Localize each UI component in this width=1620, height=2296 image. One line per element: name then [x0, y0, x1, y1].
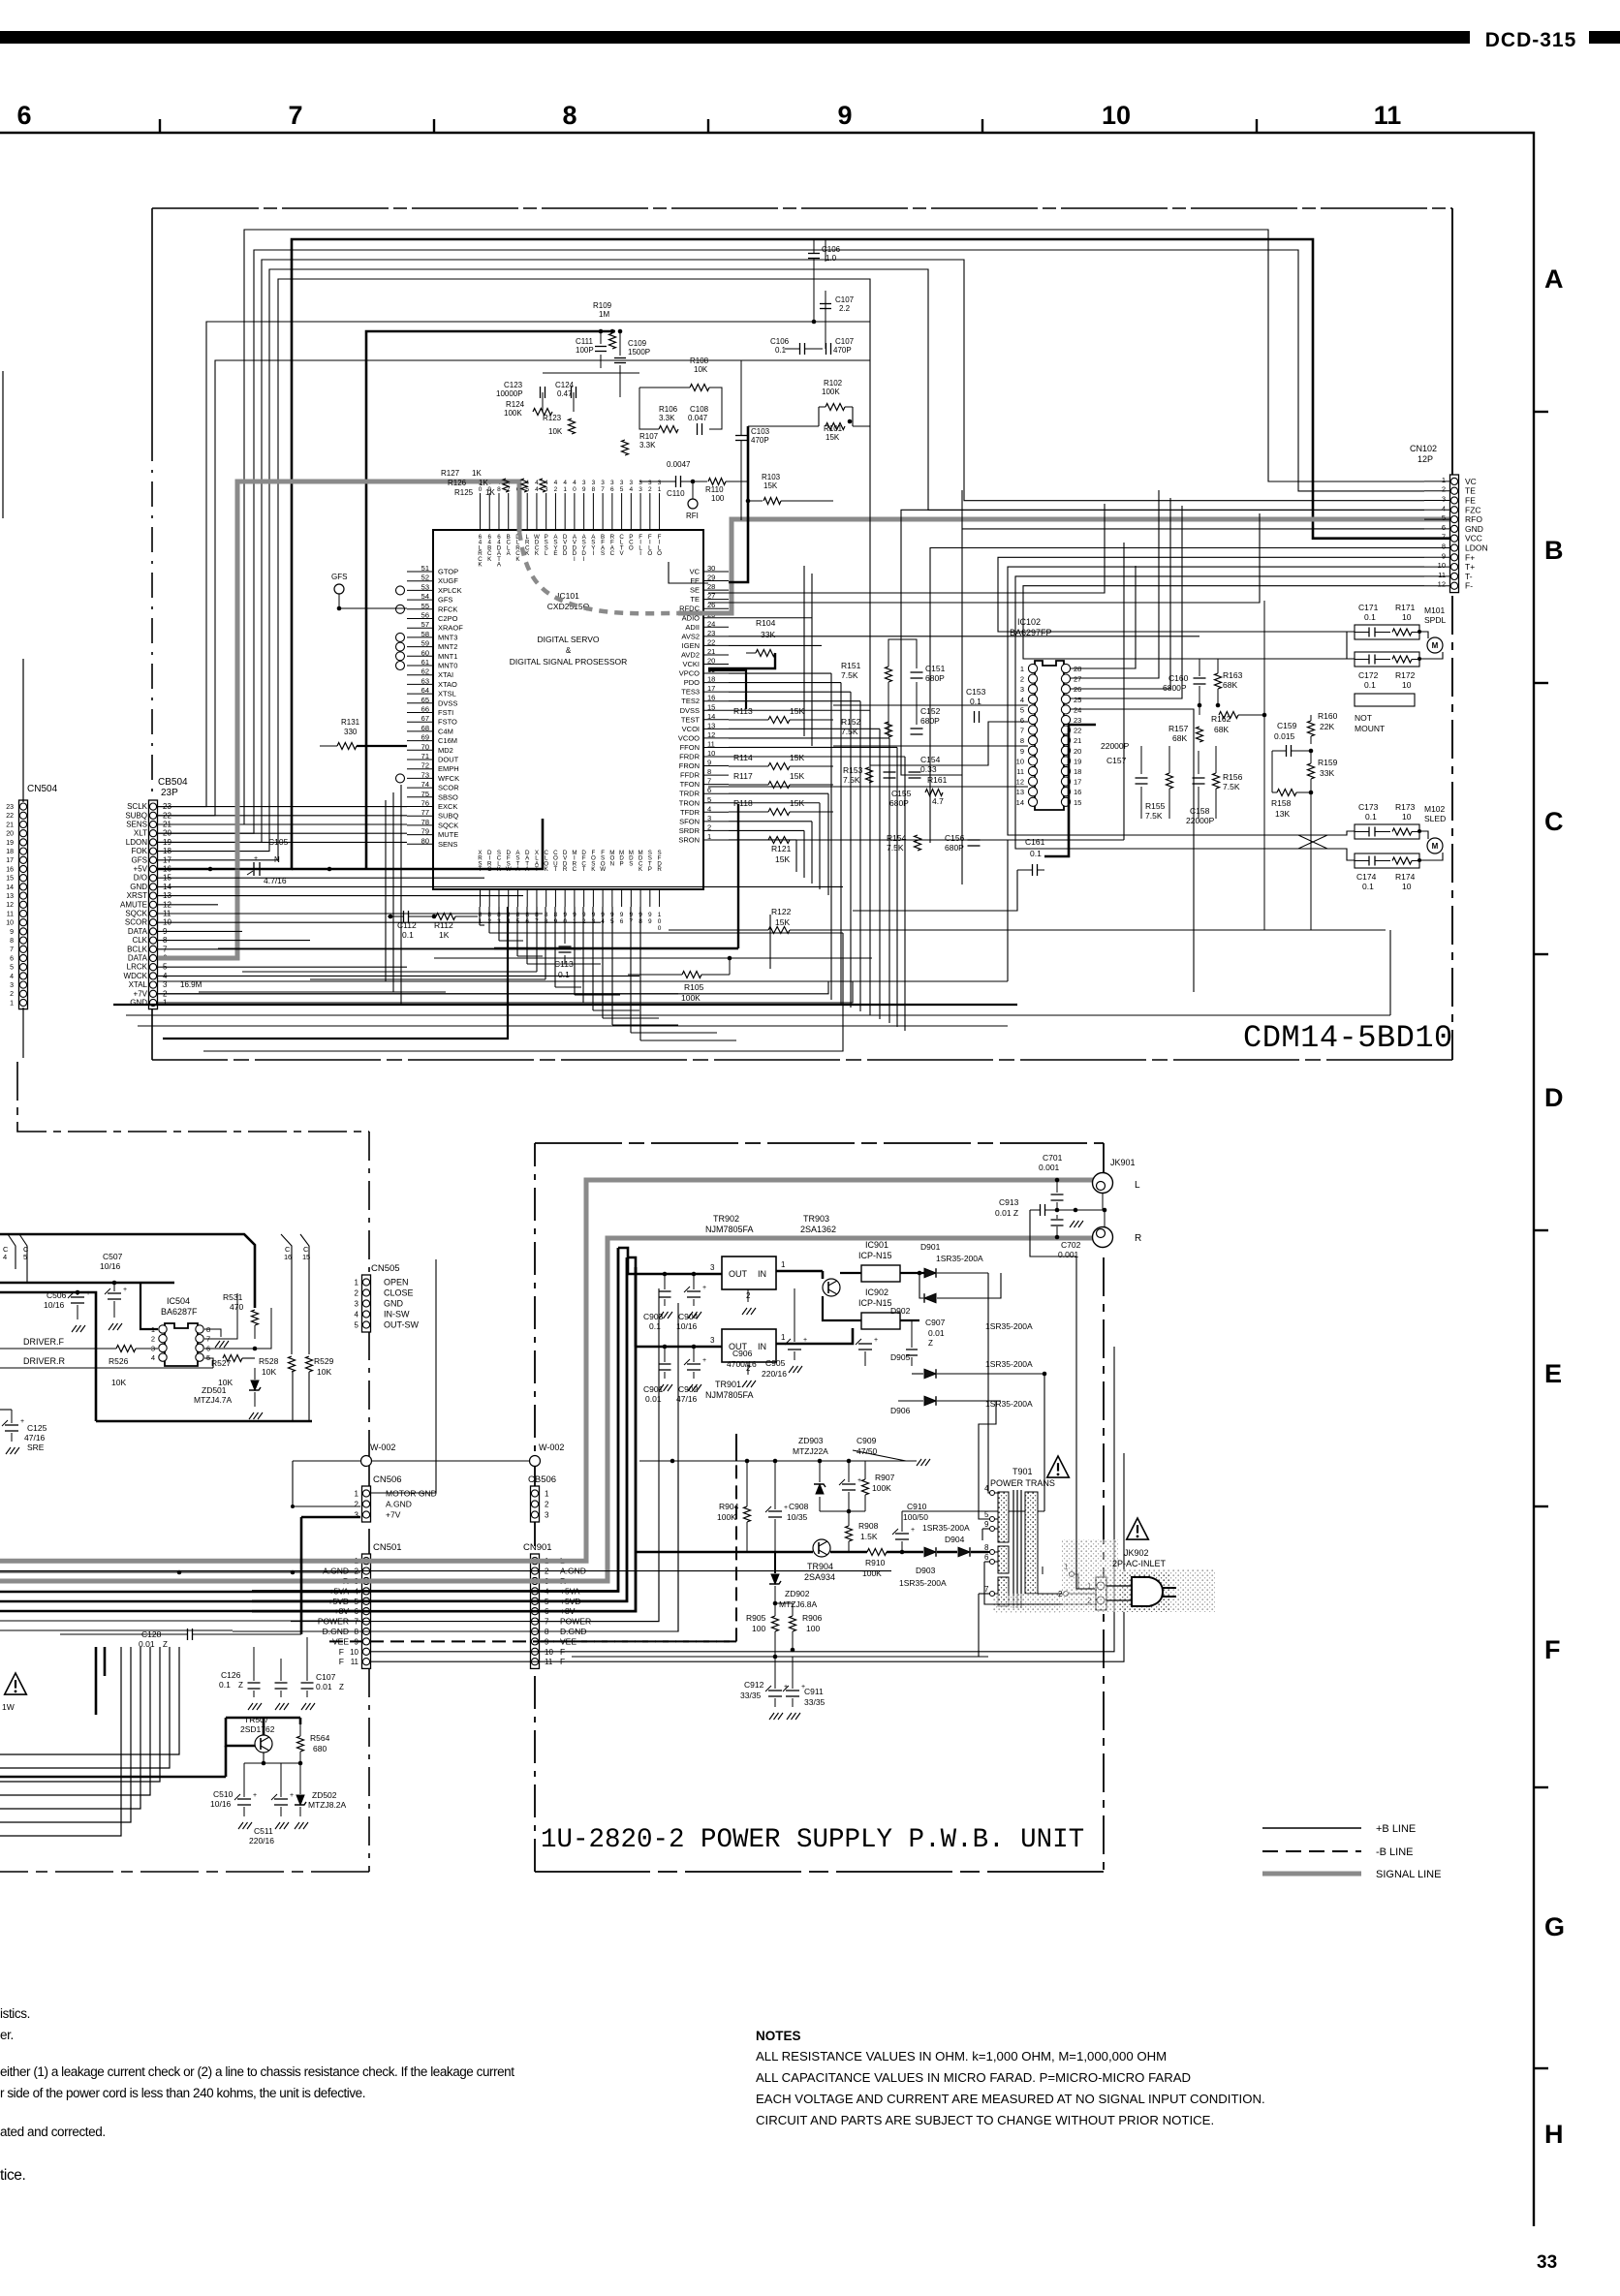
svg-text:4: 4 — [151, 1353, 155, 1362]
wire t901 p8 — [988, 1551, 990, 1553]
svg-text:18: 18 — [707, 675, 715, 684]
svg-text:DATA: DATA — [128, 954, 148, 963]
wire dgnd row — [233, 1303, 678, 1631]
svg-text:BA6287F: BA6287F — [161, 1307, 198, 1317]
svg-text:DVSS: DVSS — [438, 698, 457, 707]
wire cn102 p8 ldon — [930, 548, 1424, 844]
wire left row dgnd — [0, 1629, 233, 1631]
svg-text:NJM7805FA: NJM7805FA — [705, 1225, 754, 1234]
svg-text:21: 21 — [1074, 736, 1081, 745]
power block border right dashed — [1103, 1257, 1105, 1872]
svg-text:F+: F+ — [1465, 552, 1475, 562]
wire frame f2 — [1070, 498, 1170, 689]
svg-text:2SA1362: 2SA1362 — [800, 1225, 836, 1234]
wire ic101 bottom fan — [611, 907, 613, 1025]
wire +5vd bundle up — [627, 1257, 636, 1347]
IC101 pin 30 VC — [703, 571, 729, 573]
wire mesh vert — [888, 738, 890, 1023]
svg-text:0.001: 0.001 — [1039, 1163, 1060, 1172]
svg-text:5: 5 — [1442, 513, 1446, 522]
wire ic102 rows — [833, 704, 1028, 706]
svg-text:10: 10 — [1402, 680, 1412, 690]
wire F row2 — [371, 1453, 1124, 1661]
svg-text:20: 20 — [6, 831, 14, 838]
svg-text:21: 21 — [6, 822, 14, 828]
wire 1710 row — [572, 1656, 988, 1658]
svg-text:3: 3 — [630, 480, 634, 486]
svg-text:CB504: CB504 — [158, 777, 188, 788]
svg-text:XPLCK: XPLCK — [438, 586, 462, 595]
IC101 pin 14 TEST — [703, 719, 729, 721]
svg-text:80: 80 — [421, 836, 429, 845]
svg-text:PDO: PDO — [684, 678, 700, 687]
svg-text:XRAOF: XRAOF — [438, 624, 463, 633]
wire power row — [291, 1288, 659, 1622]
svg-text:+: + — [702, 1357, 706, 1364]
svg-text:33K: 33K — [761, 630, 775, 639]
svg-text:68K: 68K — [1214, 725, 1229, 734]
IC102 pin 10 — [1028, 757, 1037, 765]
IC101 pin 78 SQCK — [407, 824, 433, 826]
wire ic101 pin13 net — [729, 728, 880, 729]
svg-text:+: + — [20, 1418, 24, 1425]
IC101 pin 67 FSTO — [407, 721, 433, 723]
svg-text:F: F — [1544, 1635, 1561, 1664]
svg-text:SCOR: SCOR — [438, 784, 459, 792]
CDM14-5BD10 block border bottom — [152, 1059, 1452, 1061]
svg-text:FFDR: FFDR — [680, 771, 701, 780]
IC102 pin 24 — [1061, 705, 1070, 714]
svg-text:MOUNT: MOUNT — [1355, 724, 1385, 733]
svg-text:15: 15 — [6, 876, 14, 883]
svg-text:T-: T- — [1465, 572, 1473, 581]
node c507 — [112, 1281, 117, 1286]
svg-text:R109: R109 — [593, 301, 612, 310]
wire mesh r3 — [833, 620, 1028, 729]
svg-text:VPCO: VPCO — [679, 669, 700, 678]
snubber C174 R174 — [1355, 853, 1419, 868]
IC101 pin 9 FRON — [703, 765, 729, 767]
svg-text:SPDL: SPDL — [1424, 615, 1446, 625]
wire tr901 gnd — [747, 1362, 749, 1375]
IC101 pin 84 — [508, 889, 510, 907]
wire left rowF — [0, 1571, 360, 1573]
wire right mesh v2 — [869, 360, 871, 765]
IC101 pin 59 MNT2 — [407, 646, 433, 648]
IC101 pin 44 — [536, 493, 538, 530]
svg-text:100K: 100K — [681, 993, 701, 1003]
wire F row — [371, 1347, 1114, 1652]
IC504 pin 8 — [196, 1325, 203, 1333]
wire 1560 row — [820, 1510, 865, 1512]
svg-text:1: 1 — [658, 912, 662, 918]
svg-text:100K: 100K — [872, 1483, 891, 1493]
IC102 pin 5 — [1028, 705, 1037, 714]
svg-text:1: 1 — [479, 918, 483, 925]
wire CB504 pin21 to IC101 pin78 — [158, 823, 407, 825]
svg-text:3: 3 — [1020, 685, 1024, 694]
svg-text:O: O — [647, 550, 652, 557]
node c106 — [812, 320, 817, 325]
svg-text:C906: C906 — [732, 1349, 753, 1358]
svg-text:17: 17 — [707, 684, 715, 693]
wire tr902 in — [776, 1270, 823, 1273]
wire right mesh v1 — [825, 291, 826, 349]
wire m101 — [1419, 632, 1428, 638]
ruler tick — [981, 119, 983, 133]
wire cb504 fan — [158, 877, 484, 879]
svg-text:10K: 10K — [111, 1378, 126, 1387]
IC101 pin 97 — [630, 889, 632, 907]
svg-text:0.47: 0.47 — [557, 389, 573, 398]
svg-text:11: 11 — [7, 911, 14, 917]
wire exit bundle — [0, 1647, 160, 1782]
ground zd903 — [917, 1459, 921, 1466]
svg-text:C110: C110 — [667, 489, 685, 498]
wire ic101 bottom fan — [536, 907, 538, 972]
IC101 pin 24 ADII — [703, 626, 729, 628]
svg-text:W-002: W-002 — [539, 1443, 564, 1452]
svg-text:C108: C108 — [690, 405, 709, 414]
wire pass vert a — [385, 800, 387, 981]
svg-text:5: 5 — [10, 965, 14, 972]
svg-text:R110: R110 — [705, 485, 724, 494]
svg-text:SCOR: SCOR — [125, 918, 147, 927]
zener ZD903 body — [816, 1484, 824, 1494]
svg-text:7: 7 — [10, 946, 14, 953]
wire ic101 pin11 net — [729, 746, 897, 748]
wire cb504 fan — [158, 966, 407, 968]
svg-text:+7V: +7V — [134, 989, 148, 998]
wire motor gnd — [371, 1259, 436, 1493]
IC101 pin 32 — [649, 493, 651, 530]
node r101 — [848, 419, 853, 424]
IC101 pin 53 XPLCK — [407, 589, 433, 591]
capacitor C4 slant — [8, 1234, 16, 1269]
svg-text:7: 7 — [984, 1585, 989, 1594]
svg-text:VCOI: VCOI — [682, 725, 700, 733]
svg-text:11: 11 — [351, 1658, 359, 1666]
wire ic101 bottom fan — [554, 907, 556, 987]
svg-text:56: 56 — [421, 611, 429, 620]
svg-text:+: + — [254, 855, 258, 862]
op-amp U IC101 body — [433, 530, 703, 889]
svg-text:0.1: 0.1 — [1362, 882, 1374, 891]
CDM14-5BD10 block border right lower — [1451, 596, 1453, 1060]
row tick — [1534, 411, 1548, 413]
svg-text:C173: C173 — [1358, 802, 1379, 812]
wire left rows2 — [0, 1600, 360, 1603]
wire vee col — [735, 1434, 737, 1461]
svg-text:GND: GND — [1465, 524, 1483, 534]
svg-text:NJM7805FA: NJM7805FA — [705, 1390, 754, 1400]
svg-text:+: + — [702, 1285, 706, 1291]
svg-text:23: 23 — [1074, 716, 1081, 725]
svg-text:10: 10 — [1102, 101, 1131, 130]
IC101 pin 76 EXCK — [407, 806, 433, 808]
svg-text:10K: 10K — [694, 365, 708, 374]
legend signal line — [1262, 1872, 1361, 1877]
svg-text:8: 8 — [554, 912, 558, 918]
wire bundle h1 — [158, 260, 1424, 842]
svg-text:0: 0 — [658, 918, 662, 925]
svg-text:R910: R910 — [865, 1558, 886, 1567]
svg-text:1: 1 — [545, 1490, 549, 1499]
power block border bottom — [535, 1871, 1104, 1873]
svg-text:33/35: 33/35 — [740, 1691, 762, 1700]
svg-text:C126: C126 — [221, 1670, 241, 1680]
svg-text:A.GND: A.GND — [386, 1500, 412, 1509]
svg-text:10000P: 10000P — [496, 389, 523, 398]
svg-text:GFS: GFS — [331, 573, 347, 581]
node r112 — [389, 915, 393, 919]
wire mesh vert — [896, 747, 898, 1027]
wire mesh vert — [811, 822, 813, 884]
wire cn102 F- feed — [1023, 586, 1424, 659]
svg-text:3: 3 — [639, 480, 642, 486]
IC102 pin 3 — [1028, 685, 1037, 694]
snubber C173 R173 — [1355, 824, 1419, 839]
svg-text:9: 9 — [837, 101, 852, 130]
svg-text:4: 4 — [1020, 696, 1024, 704]
IC101 pin 99 — [649, 889, 651, 907]
transformer T901 winding C — [998, 1577, 1009, 1606]
IC101 pin 17 TES3 — [703, 691, 729, 693]
svg-text:1SR35-200A: 1SR35-200A — [985, 1399, 1033, 1409]
node j1 — [599, 329, 604, 334]
svg-text:0.0047: 0.0047 — [667, 460, 691, 469]
svg-text:68K: 68K — [1223, 680, 1237, 690]
svg-text:13: 13 — [1016, 788, 1024, 796]
IC101 pin 33 — [639, 493, 641, 530]
svg-text:0.1: 0.1 — [402, 930, 414, 940]
svg-text:TR904: TR904 — [807, 1562, 833, 1571]
wire ic101 pin22 net — [729, 644, 822, 646]
svg-text:+B LINE: +B LINE — [1376, 1823, 1416, 1835]
wire y junction — [853, 1450, 906, 1461]
svg-text:33/35: 33/35 — [804, 1697, 826, 1707]
svg-text:1: 1 — [355, 1279, 359, 1288]
svg-text:FE: FE — [690, 576, 700, 585]
svg-text:9: 9 — [582, 486, 586, 493]
svg-text:R124: R124 — [506, 400, 525, 409]
svg-text:C172: C172 — [1358, 670, 1379, 680]
svg-text:MTZJ22A: MTZJ22A — [793, 1446, 828, 1456]
IC102 pin 26 — [1061, 685, 1070, 694]
svg-text:4: 4 — [545, 480, 548, 486]
svg-text:17: 17 — [6, 857, 14, 864]
svg-text:52: 52 — [421, 574, 429, 582]
capacitor C702 — [1051, 1219, 1064, 1221]
svg-text:M101: M101 — [1424, 605, 1446, 615]
IC101 pin 45 — [526, 493, 528, 530]
svg-text:10: 10 — [1402, 882, 1412, 891]
wire mesh rows3 — [930, 794, 1008, 843]
svg-text:1K: 1K — [479, 479, 488, 487]
svg-text:1.0: 1.0 — [826, 254, 837, 263]
svg-text:3: 3 — [582, 480, 586, 486]
IC102 pin 23 — [1061, 715, 1070, 724]
svg-text:R117: R117 — [733, 771, 753, 781]
svg-text:2.2: 2.2 — [839, 304, 851, 313]
svg-text:0.1: 0.1 — [1364, 680, 1376, 690]
IC101 pin 1 SRON — [703, 839, 729, 841]
svg-text:10: 10 — [707, 749, 715, 758]
svg-text:C511: C511 — [254, 1826, 273, 1836]
regulator TR901 body — [722, 1329, 776, 1362]
svg-text:4: 4 — [535, 486, 539, 493]
svg-text:0.01: 0.01 — [316, 1682, 332, 1691]
svg-text:0.01: 0.01 — [928, 1328, 945, 1338]
svg-text:1SR35-200A: 1SR35-200A — [922, 1523, 970, 1533]
svg-text:S: S — [601, 550, 605, 557]
IC101 pin 25 ADIO — [703, 617, 729, 619]
ruler tick — [707, 119, 709, 133]
svg-text:IC504: IC504 — [167, 1296, 190, 1306]
wire jack L down — [1102, 1194, 1104, 1210]
svg-text:DRIVER.F: DRIVER.F — [23, 1337, 65, 1347]
svg-text:2: 2 — [545, 1501, 549, 1509]
svg-text:C701: C701 — [1043, 1153, 1063, 1163]
svg-text:2: 2 — [1442, 485, 1446, 494]
svg-text:N: N — [610, 860, 614, 867]
svg-text:C174: C174 — [1356, 872, 1377, 882]
svg-text:EXCK: EXCK — [438, 802, 457, 811]
svg-text:4: 4 — [355, 1311, 359, 1319]
svg-text:8: 8 — [479, 912, 483, 918]
svg-text:C112: C112 — [397, 920, 417, 930]
svg-text:10: 10 — [1402, 812, 1412, 822]
IC101 pin 65 DVSS — [407, 702, 433, 704]
IC101 pin 47 — [508, 493, 510, 530]
svg-text:6: 6 — [984, 1553, 989, 1562]
svg-text:23: 23 — [707, 629, 715, 637]
svg-text:3: 3 — [545, 486, 548, 493]
svg-text:C: C — [573, 866, 577, 873]
wire mesh vert — [830, 673, 832, 1000]
wire cb504 fan — [158, 975, 639, 977]
svg-text:7: 7 — [1020, 727, 1024, 735]
wire driver r hook — [204, 1358, 213, 1368]
wire row 1048 — [126, 1014, 1390, 1016]
svg-text:2: 2 — [355, 1501, 359, 1509]
wire thick 1324 — [0, 1282, 174, 1285]
svg-text:DCD-315: DCD-315 — [1485, 29, 1577, 51]
svg-text:1SR35-200A: 1SR35-200A — [985, 1359, 1033, 1369]
svg-text:0.1: 0.1 — [1030, 849, 1042, 858]
svg-text:R113: R113 — [733, 706, 753, 716]
connector CN506 — [362, 1486, 371, 1522]
svg-text:9: 9 — [620, 912, 624, 918]
svg-text:10: 10 — [1438, 561, 1446, 570]
wire row 1013 — [158, 980, 1008, 982]
IC101 pin 11 FFON — [703, 746, 729, 748]
IC101 pin 74 SCOR — [407, 787, 433, 789]
svg-text:10K: 10K — [262, 1367, 276, 1377]
svg-text:NOT: NOT — [1355, 713, 1372, 723]
svg-text:C908: C908 — [789, 1502, 809, 1511]
IC101 pin 73 WFCK — [407, 777, 433, 779]
IC102 pin 12 — [1028, 777, 1037, 786]
wire thick 1334 — [0, 1292, 96, 1421]
wire bottom long1 — [158, 981, 853, 1003]
svg-text:79: 79 — [421, 827, 429, 836]
svg-text:100P: 100P — [576, 346, 594, 355]
svg-text:C: C — [1544, 807, 1564, 836]
row tick — [1534, 2067, 1548, 2069]
svg-text:18: 18 — [1074, 767, 1081, 776]
wire ic101 pin16 net — [729, 700, 860, 702]
svg-text:TRDR: TRDR — [679, 790, 700, 798]
svg-text:64: 64 — [421, 686, 429, 695]
svg-text:C902: C902 — [678, 1384, 699, 1394]
svg-text:9: 9 — [648, 912, 652, 918]
wire mesh vert — [819, 803, 821, 889]
svg-text:IN-SW: IN-SW — [384, 1310, 410, 1319]
svg-text:RFO: RFO — [1465, 514, 1482, 524]
wire frame f6 — [1070, 566, 1136, 668]
svg-text:28: 28 — [707, 582, 715, 591]
row tick — [1534, 682, 1548, 684]
svg-text:CLK: CLK — [132, 936, 147, 945]
svg-text:&: & — [566, 646, 572, 655]
wire tr902 out — [628, 1273, 722, 1276]
IC101 pin 95 — [611, 889, 613, 907]
svg-text:1U-2820-2 POWER SUPPLY P.W.B.: 1U-2820-2 POWER SUPPLY P.W.B. UNIT — [541, 1825, 1084, 1855]
wire cb504 fan — [158, 895, 523, 897]
svg-text:AVS2: AVS2 — [681, 632, 700, 640]
IC101 pin 29 FE — [703, 580, 729, 582]
svg-text:R103: R103 — [762, 473, 781, 481]
svg-text:680P: 680P — [889, 798, 909, 808]
wire r102 loop — [748, 425, 819, 427]
svg-text:R108: R108 — [690, 357, 709, 365]
svg-text:15K: 15K — [826, 433, 840, 442]
svg-text:C909: C909 — [857, 1436, 877, 1445]
left block border bottom — [0, 1871, 369, 1873]
wire ic101 pin19 net — [729, 672, 831, 674]
svg-text:ADII: ADII — [685, 623, 700, 632]
svg-text:C904: C904 — [678, 1312, 699, 1321]
resistor R126 body — [521, 479, 527, 492]
svg-text:ZD501: ZD501 — [202, 1385, 227, 1395]
wire cb504 fan — [158, 940, 310, 942]
svg-text:L: L — [1135, 1180, 1140, 1191]
ruler tick — [159, 119, 161, 133]
svg-text:XTSL: XTSL — [438, 690, 456, 698]
svg-text:CXD2515Q: CXD2515Q — [547, 602, 590, 611]
wire ic102 pin rows right — [1070, 639, 1143, 668]
IC101 pin 71 DOUT — [407, 759, 433, 760]
svg-text:MNT0: MNT0 — [438, 662, 457, 670]
svg-text:0: 0 — [658, 925, 662, 932]
svg-text:21: 21 — [707, 647, 715, 656]
wire tr507 area top — [95, 1647, 98, 1715]
header bar right — [1589, 31, 1620, 44]
legend -B line — [1262, 1850, 1361, 1852]
svg-text:8: 8 — [562, 101, 576, 130]
svg-text:MNT1: MNT1 — [438, 652, 457, 661]
svg-text:POWER TRANS: POWER TRANS — [990, 1478, 1055, 1488]
svg-text:IN: IN — [758, 1342, 766, 1351]
node r162a — [1198, 703, 1202, 708]
svg-text:XUGF: XUGF — [438, 576, 458, 585]
svg-text:10/16: 10/16 — [676, 1321, 698, 1331]
wire cb504 fan — [158, 948, 581, 950]
IC101 pin 28 SE — [703, 589, 729, 591]
svg-text:11: 11 — [1374, 101, 1402, 130]
svg-text:P: P — [648, 866, 652, 873]
